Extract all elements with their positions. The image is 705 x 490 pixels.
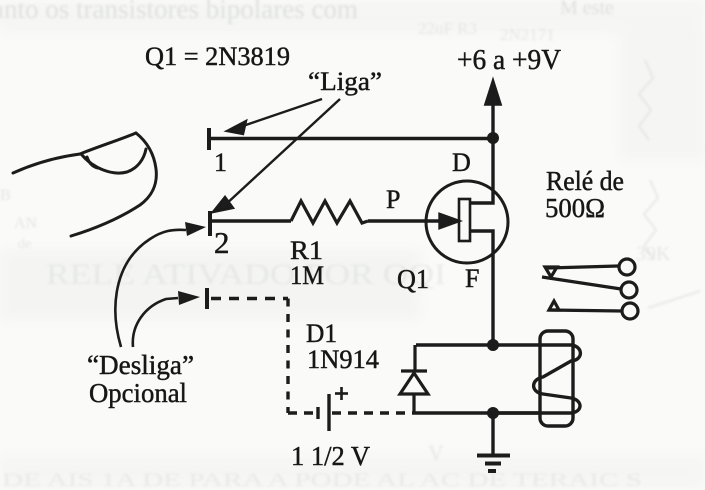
transistor Q1 channel bar	[459, 199, 470, 241]
svg-text:22uF R3: 22uF R3	[418, 19, 477, 38]
transistor Q1 (JFET 2N3819)	[426, 138, 508, 345]
diode D1	[400, 345, 428, 413]
svg-text:Opcional: Opcional	[89, 378, 187, 408]
relay contact armature (common)	[542, 277, 637, 298]
touch plate 3 (Desliga)	[205, 288, 209, 309]
wire bottom (diode to relay bottom)	[414, 411, 540, 414]
svg-text:2: 2	[214, 225, 230, 260]
arrow from Liga to plate 2	[213, 99, 340, 212]
wire plate1 to supply rail	[209, 137, 493, 140]
svg-text:1: 1	[214, 148, 227, 177]
node supply junction	[487, 132, 499, 144]
dashed wire to battery negative	[288, 411, 314, 414]
svg-text:D: D	[452, 148, 471, 177]
battery B1	[318, 394, 329, 431]
svg-text:“Liga”: “Liga”	[308, 67, 382, 96]
svg-text:Relé de: Relé de	[546, 166, 624, 196]
svg-text:2N2171: 2N2171	[500, 25, 555, 44]
svg-text:39K: 39K	[636, 243, 671, 265]
svg-text:DE AIS 1A DE PARA A PODE AL: DE AIS 1A DE PARA A PODE AL AC DE TERAIC…	[2, 470, 642, 490]
wire source node to relay coil (top)	[416, 343, 540, 346]
relay contact bottom (NO)	[548, 301, 638, 319]
svg-text:AN: AN	[14, 215, 38, 232]
wire source lead down to relay node	[470, 231, 493, 345]
touch plate 1	[207, 128, 211, 150]
dashed wire battery to diode	[332, 411, 414, 414]
svg-text:1N914: 1N914	[307, 345, 379, 374]
svg-text:de: de	[18, 237, 31, 252]
node relay top junction	[487, 339, 499, 351]
svg-text:500Ω: 500Ω	[545, 193, 605, 223]
svg-text:+6 a +9V: +6 a +9V	[457, 45, 561, 76]
resistor R1 zigzag	[291, 201, 368, 223]
arrow from Liga to plate 1	[227, 99, 322, 134]
svg-text:Q1: Q1	[397, 264, 429, 294]
svg-text:V: V	[428, 440, 444, 465]
dashed wire plate3 to corner	[211, 297, 288, 300]
svg-text:M este: M este	[560, 0, 614, 19]
svg-text:B: B	[0, 187, 11, 204]
svg-text:F: F	[465, 264, 479, 293]
curved arrow Desliga to plate 3	[133, 298, 178, 347]
dashed wire corner down to battery level	[286, 299, 289, 414]
svg-text:anto os transistores bipolares: anto os transistores bipolares com	[0, 0, 358, 24]
supply arrow	[486, 82, 500, 138]
ground	[477, 413, 510, 471]
svg-text:Q1 = 2N3819: Q1 = 2N3819	[145, 42, 290, 71]
svg-text:“Desliga”: “Desliga”	[87, 350, 194, 380]
transistor Q1 body circle	[426, 181, 508, 263]
node relay bottom junction	[487, 407, 499, 419]
svg-text:D1: D1	[306, 319, 337, 348]
finger (hand touching plate)	[13, 133, 156, 236]
svg-text:P: P	[386, 185, 400, 214]
wire drain lead to supply rail	[470, 138, 493, 203]
touch plate 2	[208, 211, 212, 236]
svg-text:RELÉ ATIVADO POR OQI: RELÉ ATIVADO POR OQI	[46, 258, 446, 291]
relay contact top (NC)	[545, 259, 635, 277]
relay coil K1	[493, 331, 580, 426]
curved arrow Desliga to plate 2	[115, 230, 186, 347]
svg-text:1 1/2 V: 1 1/2 V	[291, 441, 370, 471]
wire R1 to gate with arrowhead	[368, 215, 458, 228]
svg-text:1M: 1M	[290, 261, 324, 290]
battery plus sign	[335, 387, 348, 400]
wire plate2 to R1	[210, 219, 291, 222]
